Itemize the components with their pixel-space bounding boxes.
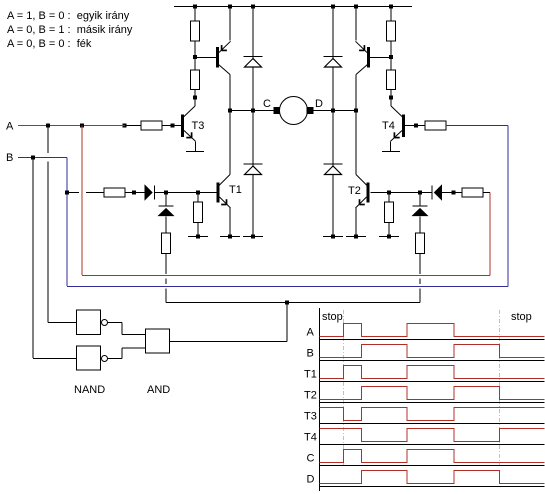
svg-text:T4: T4 xyxy=(382,120,395,132)
diode D7 series (points left) xyxy=(432,185,442,199)
label NAND xyxy=(74,384,105,396)
timing gridline stop-right xyxy=(499,310,501,466)
svg-text:T3: T3 xyxy=(192,120,205,132)
Q1 emitter arrow (PNP, into bar) xyxy=(222,45,227,50)
junction D4 ground xyxy=(331,235,335,239)
junction on supply rail x=230 xyxy=(228,5,232,9)
wire D5 to junction xyxy=(155,192,167,194)
svg-text:T2: T2 xyxy=(348,185,361,197)
wire NAND2 to AND vertical xyxy=(121,348,123,359)
wire T4 collector vertical xyxy=(390,99,392,106)
text logic table line 1 xyxy=(7,10,130,22)
wire T1 feed segment 2 (after red crossing) xyxy=(86,192,104,194)
ground for T4 xyxy=(382,151,400,153)
wire top supply rail xyxy=(174,6,412,8)
junction T2 ground xyxy=(354,235,358,239)
diode D2 upper-right freewheel xyxy=(324,57,343,68)
wire T1 feed segment 1 xyxy=(69,192,79,194)
wire R9 drop segment 2 xyxy=(165,279,167,285)
wire R1 to R2 xyxy=(194,41,196,70)
node right PNP base tap xyxy=(389,55,393,59)
transistor T4 bar xyxy=(402,115,405,138)
wire NAND1 input xyxy=(48,322,77,324)
T4 emitter arrow (NPN, out of bar) xyxy=(394,132,399,137)
wire D8 to R12 xyxy=(419,217,421,234)
junction A line to R5 xyxy=(123,124,127,128)
T1 emitter diagonal xyxy=(220,197,231,208)
wire D3 to ground xyxy=(252,174,254,236)
timing row T3 label xyxy=(304,411,317,423)
wire Q2 base xyxy=(370,57,391,59)
wire R11 tap down xyxy=(388,193,390,203)
resistor R9 brake-left xyxy=(162,233,171,254)
wire blue loop vertical-right xyxy=(507,126,509,287)
junction R8 tap xyxy=(196,191,200,195)
wire R8 to ground xyxy=(197,223,199,237)
resistor R12 brake-right xyxy=(416,233,425,254)
wire A line black segment xyxy=(126,125,141,127)
diode D4 lower-right freewheel xyxy=(324,164,343,175)
wire red loop vertical-right xyxy=(489,193,491,276)
transistor T2 bar xyxy=(367,183,370,203)
wire rail to R1 xyxy=(194,7,196,22)
wire T4 base xyxy=(405,125,416,127)
wire Q1 emitter to rail xyxy=(229,7,231,41)
junction A to NAND drop xyxy=(46,124,50,128)
timing row B baseline xyxy=(320,360,545,362)
junction node D-diode xyxy=(331,109,335,113)
timing trace T4 xyxy=(320,429,545,442)
diode D8 clamp (points up) xyxy=(413,206,428,216)
label T4 xyxy=(382,120,395,132)
wire A drop to NAND1 (below blue crossing) xyxy=(47,162,49,323)
wire brake bus horizontal xyxy=(166,302,420,304)
wire to T1 base xyxy=(198,192,217,194)
wire node C to diode D3 xyxy=(252,111,254,168)
svg-text:C: C xyxy=(263,98,271,110)
wire blue loop bottom horizontal xyxy=(67,286,508,288)
timing row A baseline xyxy=(320,339,545,341)
wire D2 to node D xyxy=(332,67,334,110)
wire Q2 collector down to node D branch xyxy=(355,75,357,175)
junction R11 tap xyxy=(387,191,391,195)
wire AND output riser xyxy=(286,303,288,342)
svg-text:A = 1, B = 0 : egyik irány: A = 1, B = 0 : egyik irány xyxy=(7,10,130,22)
Q1 collector diagonal xyxy=(219,65,231,75)
ground for T1 xyxy=(220,236,240,238)
junction T3 base dot xyxy=(171,124,175,128)
wire T2 feed from red loop xyxy=(483,192,490,194)
wire R9 drop segment 1 xyxy=(165,254,167,275)
timing row T2 label xyxy=(304,390,317,402)
T3 emitter arrow (NPN, out of bar) xyxy=(186,132,191,137)
wire R10 to diode D7 xyxy=(442,192,463,194)
wire to T2 base xyxy=(371,192,390,194)
wire blue loop to R6 xyxy=(446,125,508,127)
svg-text:T2: T2 xyxy=(304,390,317,402)
timing row T4 baseline xyxy=(320,444,545,446)
timing trace A xyxy=(320,324,545,337)
label stop right xyxy=(511,311,532,323)
label T3 xyxy=(192,120,205,132)
gate AND box xyxy=(146,329,170,353)
wire D4 to ground xyxy=(332,174,334,236)
wire AND input bottom xyxy=(122,347,146,349)
wire red loop vertical-left xyxy=(81,126,83,276)
wire R8 tap down xyxy=(197,193,199,203)
svg-text:A = 0, B = 1 : másik irány: A = 0, B = 1 : másik irány xyxy=(7,24,133,36)
transistor T3 bar xyxy=(181,115,184,138)
junction node C-left xyxy=(228,109,232,113)
junction on supply rail x=391 xyxy=(389,5,393,9)
T3 collector diagonal xyxy=(184,106,196,117)
T2 collector diagonal xyxy=(356,175,367,186)
timing row D label xyxy=(307,474,315,486)
svg-text:A: A xyxy=(307,327,315,339)
wire R3 to R4 xyxy=(390,41,392,70)
ground for T3 xyxy=(186,151,204,153)
motor M body xyxy=(280,97,308,125)
wire rail to diode D1 xyxy=(252,7,254,60)
wire T2 emitter to ground xyxy=(355,208,357,236)
timing row A label xyxy=(307,327,315,339)
wire junction to R8 node xyxy=(166,192,198,194)
resistor R8 T1 base-emitter xyxy=(194,202,203,223)
svg-text:T4: T4 xyxy=(304,432,317,444)
resistor R2 upper-left chain xyxy=(191,70,200,90)
transistor Q1 upper-left PNP bar xyxy=(216,47,219,68)
timing row B label xyxy=(307,348,314,360)
node T4 collector junction xyxy=(389,96,393,100)
timing axis vertical xyxy=(319,308,321,491)
wire input B blue xyxy=(18,157,67,159)
svg-text:T1: T1 xyxy=(229,184,242,196)
wire R12 drop segment 1 xyxy=(419,254,421,275)
svg-text:T3: T3 xyxy=(304,411,317,423)
junction T1 feed node xyxy=(164,191,168,195)
T1 emitter arrow (NPN) xyxy=(221,199,226,204)
wire Q1 base xyxy=(195,57,216,59)
wire R7 to diode D5 xyxy=(125,192,145,194)
wire node C row xyxy=(230,110,274,112)
svg-text:C: C xyxy=(307,453,315,465)
wire junction down to D6 xyxy=(165,193,167,207)
junction after R10 xyxy=(452,191,456,195)
T4 emitter diagonal xyxy=(391,131,403,142)
junction after R7 xyxy=(132,191,136,195)
resistor R6 T4 base xyxy=(425,121,446,130)
junction on supply rail x=333 xyxy=(331,5,335,9)
resistor R1 upper-left chain xyxy=(191,21,200,41)
svg-text:stop: stop xyxy=(322,311,343,323)
junction node C-diode xyxy=(251,109,255,113)
Q2 collector diagonal xyxy=(356,65,368,75)
wire R12 drop segment 2 xyxy=(419,279,421,285)
timing trace T2 xyxy=(320,387,545,400)
wire R12 drop segment 3 xyxy=(419,289,421,303)
wire R2 to T3 collector node xyxy=(194,90,196,100)
T2 emitter diagonal xyxy=(356,197,367,208)
timing row C baseline xyxy=(320,465,545,467)
resistor R7 T1 feed xyxy=(104,188,125,197)
text logic table line 3 xyxy=(7,38,92,50)
junction T1 ground xyxy=(228,235,232,239)
wire D6 to R9 xyxy=(165,217,167,234)
wire input A red xyxy=(18,125,125,127)
wire AND output xyxy=(170,341,288,343)
label node D xyxy=(315,98,323,110)
timing row D baseline xyxy=(320,486,545,488)
wire NAND2 input xyxy=(33,358,77,360)
wire blue loop vertical-left xyxy=(66,158,68,287)
transistor T1 bar xyxy=(217,183,220,203)
wire A drop to NAND1 (upper) xyxy=(47,126,49,154)
svg-text:A = 0, B = 0 : fék: A = 0, B = 0 : fék xyxy=(7,38,92,50)
label T1 xyxy=(229,184,242,196)
diode D1 upper-left freewheel xyxy=(244,57,263,68)
gate NAND1 bubble xyxy=(102,320,108,326)
junction on supply rail x=356 xyxy=(354,5,358,9)
timing row T2 baseline xyxy=(320,402,545,404)
wire T3 base xyxy=(162,125,181,127)
diode D6 clamp (points up) xyxy=(159,206,174,216)
resistor R10 T2 feed xyxy=(462,188,483,197)
junction R8 ground xyxy=(196,235,200,239)
T3 emitter diagonal xyxy=(184,131,196,142)
svg-text:T1: T1 xyxy=(304,369,317,381)
svg-text:B: B xyxy=(6,152,13,164)
wire Q2 emitter to rail xyxy=(355,7,357,41)
junction T4 base dot xyxy=(414,124,418,128)
wire T4 emitter stub xyxy=(390,141,392,151)
timing row T1 label xyxy=(304,369,317,381)
wire T4 base black segment xyxy=(416,125,425,127)
wire R9 drop segment 3 xyxy=(165,289,167,303)
wire AND input top xyxy=(122,334,146,336)
resistor R4 upper-right chain xyxy=(387,70,396,90)
wire D1 to node C xyxy=(252,67,254,110)
timing row T1 baseline xyxy=(320,381,545,383)
svg-text:AND: AND xyxy=(147,384,170,396)
wire NAND2 to AND horizontal xyxy=(108,358,123,360)
wire T3 collector vertical xyxy=(194,99,196,106)
text logic table line 2 xyxy=(7,24,133,36)
junction T2 feed node xyxy=(418,191,422,195)
node left PNP base tap xyxy=(193,55,197,59)
wire junction to R11 tap xyxy=(389,192,420,194)
label stop left xyxy=(322,311,343,323)
ground for R11 xyxy=(379,236,399,238)
label AND xyxy=(147,384,170,396)
svg-text:A: A xyxy=(6,121,14,133)
label node C xyxy=(263,98,271,110)
junction D3 ground xyxy=(251,235,255,239)
gate NAND1 box xyxy=(77,310,101,335)
ground for D4 xyxy=(323,236,343,238)
wire junction down to D8 xyxy=(419,193,421,207)
timing trace T3 xyxy=(320,408,545,421)
wire NAND1 to AND vertical xyxy=(121,323,123,335)
gate NAND2 box xyxy=(77,346,101,370)
wire T1 emitter to ground xyxy=(229,208,231,236)
wire node D row xyxy=(313,110,356,112)
timing trace C xyxy=(320,450,545,463)
timing row T3 baseline xyxy=(320,423,545,425)
wire red loop bottom horizontal xyxy=(82,275,490,277)
transistor Q2 upper-right PNP bar xyxy=(367,47,370,68)
junction brake bus to AND output xyxy=(285,301,289,305)
wire D7 to junction xyxy=(420,192,433,194)
svg-text:stop: stop xyxy=(511,311,532,323)
wire NAND1 to AND horizontal xyxy=(108,322,123,324)
ground for T2 xyxy=(346,236,366,238)
T1 collector diagonal xyxy=(219,175,230,186)
wire B drop to NAND2 xyxy=(32,158,34,359)
wire rail to diode D2 xyxy=(332,7,334,60)
T4 collector diagonal xyxy=(391,106,403,117)
junction blue line to T1 feed xyxy=(65,191,69,195)
diode D3 lower-left freewheel xyxy=(244,164,263,175)
svg-text:D: D xyxy=(307,474,315,486)
svg-text:D: D xyxy=(315,98,323,110)
wire node D to diode D4 xyxy=(332,111,334,168)
junction node D-right xyxy=(354,109,358,113)
timing row C label xyxy=(307,453,315,465)
ground for R8 xyxy=(188,236,208,238)
junction A to red loop drop xyxy=(80,124,84,128)
timing gridline stop-left xyxy=(343,310,345,466)
wire R4 to T4 collector node xyxy=(390,90,392,100)
wire R11 to ground xyxy=(388,223,390,237)
resistor R3 upper-right chain xyxy=(387,21,396,41)
junction on supply rail x=253 xyxy=(251,5,255,9)
wire T3 emitter stub xyxy=(195,141,197,151)
Q2 emitter arrow (PNP, into bar) xyxy=(359,45,364,50)
label input B xyxy=(6,152,13,164)
svg-text:B: B xyxy=(307,348,314,360)
motor M terminal right xyxy=(307,107,314,114)
junction R11 ground xyxy=(387,235,391,239)
Q2 emitter diagonal xyxy=(356,41,368,52)
svg-text:NAND: NAND xyxy=(74,384,105,396)
timing trace T1 xyxy=(320,366,545,379)
label T2 xyxy=(348,185,361,197)
motor M terminal left xyxy=(274,107,281,114)
node T3 collector junction xyxy=(193,96,197,100)
junction on supply rail x=195 xyxy=(193,5,197,9)
timing trace B xyxy=(320,345,545,358)
wire rail to R3 xyxy=(390,7,392,22)
wire Q1 collector down to node C branch xyxy=(229,75,231,175)
timing trace D xyxy=(320,471,545,484)
resistor R11 T2 base-emitter xyxy=(385,202,394,223)
timing row T4 label xyxy=(304,432,317,444)
diode D5 series (points right) xyxy=(145,185,155,199)
resistor R5 T3 base xyxy=(141,121,162,130)
gate NAND2 bubble xyxy=(102,356,108,362)
T2 emitter arrow (NPN) xyxy=(360,199,365,204)
ground for D3 xyxy=(243,236,263,238)
Q1 emitter diagonal xyxy=(219,41,231,52)
junction B to NAND drop xyxy=(31,156,35,160)
label input A xyxy=(6,121,14,133)
